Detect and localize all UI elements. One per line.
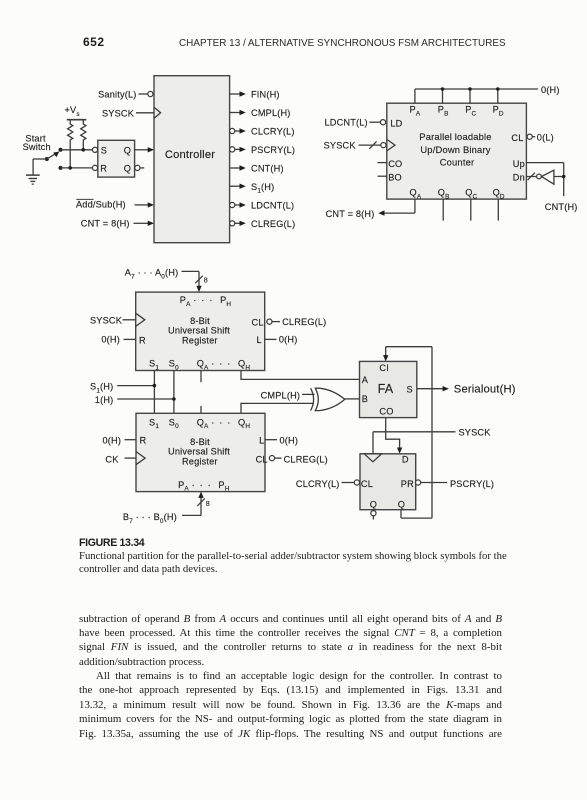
wire xor output to FA input B — [344, 398, 359, 400]
output Serialout(H) — [417, 384, 516, 396]
svg-text:CL: CL — [361, 479, 373, 489]
svg-text:SYSCK: SYSCK — [459, 428, 492, 438]
svg-text:CLREG(L): CLREG(L) — [282, 317, 326, 327]
inverter G2 on Dn — [513, 170, 564, 184]
svg-text:FA: FA — [378, 382, 394, 396]
svg-text:S: S — [101, 146, 107, 156]
controller U2 — [154, 76, 230, 243]
svg-text:Q: Q — [398, 499, 405, 509]
svg-text:Up/Down Binary: Up/Down Binary — [420, 144, 490, 155]
output S1(H) — [230, 182, 275, 195]
wire Up to CNT(H) — [513, 159, 564, 169]
svg-text:CLCRY(L): CLCRY(L) — [251, 127, 295, 137]
svg-text:R: R — [139, 335, 146, 345]
wire switch to S input — [61, 148, 93, 152]
wire QH reg2 to XOR input — [241, 403, 314, 413]
svg-text:0(H): 0(H) — [103, 436, 122, 446]
wire QD stub — [497, 199, 499, 221]
input CK clock reg2 — [105, 452, 145, 465]
input L to 0(H) — [257, 335, 298, 346]
svg-text:Counter: Counter — [440, 157, 475, 168]
output CLREG(L) — [230, 219, 296, 229]
output CLCRY(L) — [230, 127, 295, 137]
svg-text:0(H): 0(H) — [541, 85, 560, 95]
svg-text:CL: CL — [252, 318, 264, 328]
input CL to 0(L) — [511, 132, 553, 142]
svg-text:CNT(H): CNT(H) — [545, 202, 578, 212]
output PSCRY(L) — [416, 479, 495, 489]
wire QC stub — [470, 199, 472, 221]
input SYSCK — [102, 107, 161, 118]
wire SYSCK to flip-flop clock — [373, 428, 491, 454]
svg-text:CL: CL — [511, 133, 523, 143]
svg-text:LD: LD — [390, 119, 402, 129]
output CL to CLREG(L) — [252, 317, 327, 327]
input LDCNT(L) to LD — [325, 118, 403, 129]
svg-text:Serialout(H): Serialout(H) — [454, 384, 516, 396]
output LDCNT(L) — [230, 201, 295, 211]
svg-text:CO: CO — [379, 407, 393, 417]
svg-text:Q: Q — [124, 146, 131, 156]
svg-text:S1​(H): S1​(H) — [251, 182, 274, 195]
input S1(H) — [90, 381, 156, 394]
output BO stub — [378, 173, 402, 183]
output CNT(H) — [230, 164, 284, 174]
svg-text:A: A — [362, 375, 369, 385]
svg-text:L: L — [259, 436, 264, 446]
counter U3 (parallel loadable up/down binary counter) — [387, 103, 527, 199]
flip-flop Qbar bubble stub — [371, 511, 376, 520]
start switch — [23, 134, 63, 175]
svg-text:FIN(H): FIN(H) — [251, 90, 280, 100]
svg-text:R: R — [140, 436, 147, 446]
svg-text:8: 8 — [204, 275, 208, 284]
svg-text:Sanity(L): Sanity(L) — [98, 89, 136, 99]
input L to 0(H) reg2 — [259, 436, 298, 446]
flip-flop U7 (D with PR CL) — [360, 454, 416, 510]
svg-text:S: S — [407, 384, 413, 394]
svg-text:A7​ · · · A0​(H): A7​ · · · A0​(H) — [125, 267, 179, 280]
bus B7...B0(H) into register — [123, 492, 210, 525]
node CNT(H) — [545, 163, 578, 212]
resistor R1 — [68, 120, 73, 168]
svg-text:Switch: Switch — [23, 142, 51, 152]
svg-text:CL: CL — [256, 455, 268, 465]
input 0(H) to R reg2 — [103, 436, 147, 446]
wire CO to D input — [386, 418, 403, 454]
svg-text:Q: Q — [124, 164, 131, 174]
input 1(H) — [95, 395, 176, 405]
wire QH reg1 to FA input A — [241, 371, 360, 380]
svg-text:Register: Register — [182, 457, 218, 467]
latch Qbar bubble — [135, 165, 144, 170]
wire switch to R input — [61, 166, 93, 170]
svg-text:LDCNT(L): LDCNT(L) — [325, 118, 368, 128]
latch U1 (set/dominant debounce) — [92, 140, 134, 177]
input CLCRY(L) — [296, 479, 360, 489]
svg-text:0(H): 0(H) — [279, 335, 298, 345]
wire QA stub reg1 — [200, 371, 202, 383]
xor gate G1 — [311, 388, 345, 410]
wire QB stub — [442, 199, 444, 221]
bus A7...A0(H) into register — [125, 267, 208, 292]
ground — [26, 175, 40, 184]
wire S1 between registers — [153, 371, 155, 414]
input Sanity(L) — [98, 89, 153, 99]
svg-text:Controller: Controller — [165, 149, 215, 161]
svg-text:Up: Up — [513, 159, 525, 169]
output PSCRY(L) — [230, 145, 296, 155]
svg-text:CMPL(H): CMPL(H) — [251, 108, 291, 118]
svg-text:CK: CK — [105, 455, 119, 465]
svg-text:B7​ · · · B0​(H): B7​ · · · B0​(H) — [123, 512, 177, 525]
svg-text:D: D — [402, 455, 409, 465]
input CNT = 8(H) — [81, 219, 154, 229]
svg-text:SYSCK: SYSCK — [90, 316, 123, 326]
svg-text:Add/Sub(H): Add/Sub(H) — [76, 200, 126, 210]
input SYSCK to counter clock — [324, 139, 395, 151]
resistor R2 — [81, 120, 86, 150]
power rail +Vs — [65, 105, 87, 120]
svg-text:BO: BO — [388, 173, 402, 183]
svg-text:Dn: Dn — [513, 173, 525, 183]
output CMPL(H) — [230, 108, 291, 118]
svg-text:B: B — [362, 394, 368, 404]
svg-text:CLREG(L): CLREG(L) — [251, 219, 295, 229]
svg-text:Parallel loadable: Parallel loadable — [419, 131, 491, 142]
svg-text:CLREG(L): CLREG(L) — [284, 455, 328, 465]
node 0(H) top right — [541, 85, 560, 95]
svg-text:SYSCK: SYSCK — [324, 140, 357, 150]
pin labels PA PB PC PD — [410, 105, 504, 118]
svg-text:SYSCK: SYSCK — [102, 108, 135, 118]
output FIN(H) — [230, 90, 280, 100]
svg-text:CNT = 8(H): CNT = 8(H) — [81, 219, 130, 229]
input CMPL(H) — [261, 391, 315, 401]
svg-text:CLCRY(L): CLCRY(L) — [296, 479, 340, 489]
wire 0(H) rail to P inputs — [415, 87, 538, 103]
input Add/Sub(H) — [76, 199, 154, 209]
svg-text:+Vs​: +Vs​ — [65, 105, 80, 118]
svg-text:0(L): 0(L) — [537, 132, 554, 142]
svg-text:CO: CO — [388, 159, 402, 169]
svg-text:Universal Shift: Universal Shift — [168, 447, 230, 457]
output CL to CLREG(L) reg2 — [256, 455, 328, 465]
svg-text:CMPL(H): CMPL(H) — [261, 391, 301, 401]
svg-text:PR: PR — [401, 479, 414, 489]
pin labels QA QB QC QD — [410, 187, 505, 200]
svg-text:8: 8 — [206, 499, 210, 508]
svg-text:8-Bit: 8-Bit — [190, 316, 210, 326]
svg-text:Register: Register — [182, 336, 218, 346]
wire latch Q to controller — [135, 147, 154, 152]
svg-text:CNT = 8(H): CNT = 8(H) — [326, 209, 375, 219]
svg-text:PSCRY(L): PSCRY(L) — [251, 145, 295, 155]
wire QA stub reg2 — [200, 406, 202, 413]
svg-text:S1​(H): S1​(H) — [90, 381, 113, 394]
input 0(H) to R — [101, 335, 146, 346]
svg-text:1(H): 1(H) — [95, 395, 114, 405]
input SYSCK to register clock — [90, 313, 145, 326]
svg-text:R: R — [100, 164, 107, 174]
svg-text:CI: CI — [379, 363, 389, 373]
svg-text:LDCNT(L): LDCNT(L) — [251, 201, 294, 211]
svg-text:0(H): 0(H) — [101, 335, 120, 345]
output CO stub — [378, 159, 403, 169]
wire S0 between registers — [173, 371, 175, 414]
svg-text:PSCRY(L): PSCRY(L) — [450, 479, 494, 489]
svg-text:Q: Q — [370, 499, 377, 509]
svg-text:8-Bit: 8-Bit — [190, 437, 210, 447]
wire QA to CNT = 8(H) — [326, 199, 415, 219]
svg-text:Universal Shift: Universal Shift — [168, 326, 230, 336]
svg-text:0(H): 0(H) — [280, 436, 299, 446]
svg-text:CNT(H): CNT(H) — [251, 164, 284, 174]
full adder U6 — [360, 361, 417, 417]
register U5 (8-bit universal shift register B) — [136, 413, 265, 492]
register U4 (8-bit universal shift register A) — [136, 292, 265, 371]
wire carry feedback loop Q to CI — [383, 347, 432, 518]
svg-text:L: L — [257, 335, 262, 345]
